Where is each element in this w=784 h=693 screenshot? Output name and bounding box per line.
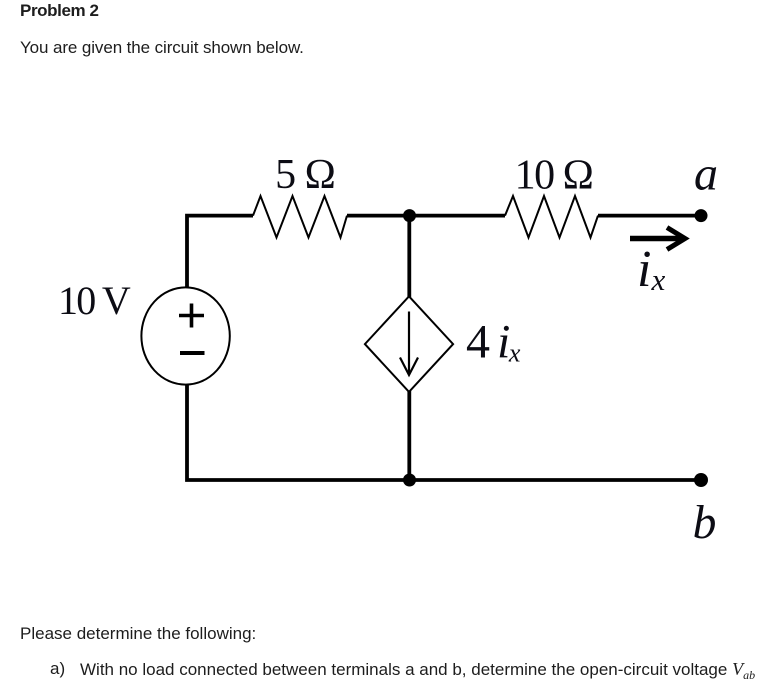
title: Problem 2: [20, 2, 99, 19]
plus sign: [179, 304, 204, 328]
node dot terminal a: [695, 209, 708, 222]
intro text: [20, 39, 304, 56]
svg-text:10 Ω: 10 Ω: [515, 153, 593, 199]
svg-text:b: b: [693, 497, 717, 549]
wire top node down to dependent source: [407, 216, 411, 297]
wire R2 to terminal a: [598, 214, 701, 218]
list item a: [50, 660, 65, 677]
svg-text:5 Ω: 5 Ω: [275, 152, 335, 198]
svg-text:10 V: 10 V: [58, 278, 131, 323]
current arrow ix: [630, 228, 685, 250]
svg-text:4ix: 4ix: [466, 316, 521, 369]
wire source bottom to bottom rail, bottom rail to terminal b: [187, 385, 701, 481]
wire R1 to R2 through top node: [347, 214, 505, 218]
minus sign: [180, 351, 205, 355]
resistor R1 5 ohm zigzag: [253, 196, 347, 238]
node dot top middle: [403, 209, 416, 222]
dependent current source U1 diamond: [365, 296, 453, 392]
svg-text:a: a: [694, 148, 718, 201]
wire top-left corner and top rail to R1: [187, 216, 253, 288]
voltage source V1 circle: [141, 287, 229, 384]
resistor R2 10 ohm zigzag: [505, 196, 598, 238]
node dot bottom middle: [403, 474, 416, 487]
svg-text:ix: ix: [637, 241, 665, 298]
node dot terminal b: [694, 473, 708, 487]
prompt text: [20, 625, 256, 642]
arrow inside diamond: [400, 312, 418, 376]
wire dependent source to bottom rail: [407, 391, 411, 480]
